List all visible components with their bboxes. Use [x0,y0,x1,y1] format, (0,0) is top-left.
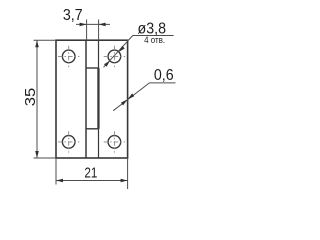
joint step lower [86,128,99,130]
hole top-right [108,50,121,63]
leader 3,8 arrow at lower-left of hole (points up-right) [104,61,110,67]
leader 0,6 arrow lower (points up-right to edge) [121,99,128,105]
dimension 3,7 line [76,23,110,25]
leader 0,6 shelf [149,82,175,84]
dimension 3,7 arrows [80,23,87,27]
svg-text:0,6: 0,6 [154,67,174,84]
plate outline [56,40,128,158]
dimension 35 extension lines [34,39,57,41]
joint middle double edge (0.6 thickness) [97,68,99,129]
dimension 35 line [36,40,38,158]
svg-text:21: 21 [84,165,97,182]
svg-text:3,7: 3,7 [63,7,83,24]
dimension 35 arrows [35,40,39,47]
dimension 21 arrows [56,179,63,183]
hole bottom-left [62,136,75,149]
dimension 3,7 extension lines [86,20,88,41]
dimension 21 extension lines [55,158,57,185]
leader 0,6 arrow upper (points down-left to edge) [128,93,135,99]
leader 3,8 arrow at upper-right of hole (points down-left) [119,46,125,52]
hole top-left [62,50,75,63]
svg-text:35: 35 [22,88,39,107]
joint line right top section [98,40,100,68]
leader 0,6: diagonal to right edge [113,83,149,111]
svg-text:4 отв.: 4 отв. [144,35,165,45]
joint step upper [86,67,99,69]
joint line left (full height) [85,40,87,158]
leader 3,8 shelf [133,35,174,37]
joint line right bottom section [98,129,100,158]
leader diameter 3,8: diagonal line through top-right hole [104,36,133,68]
hole bottom-right [108,136,121,149]
dimension 21 line [56,180,128,182]
